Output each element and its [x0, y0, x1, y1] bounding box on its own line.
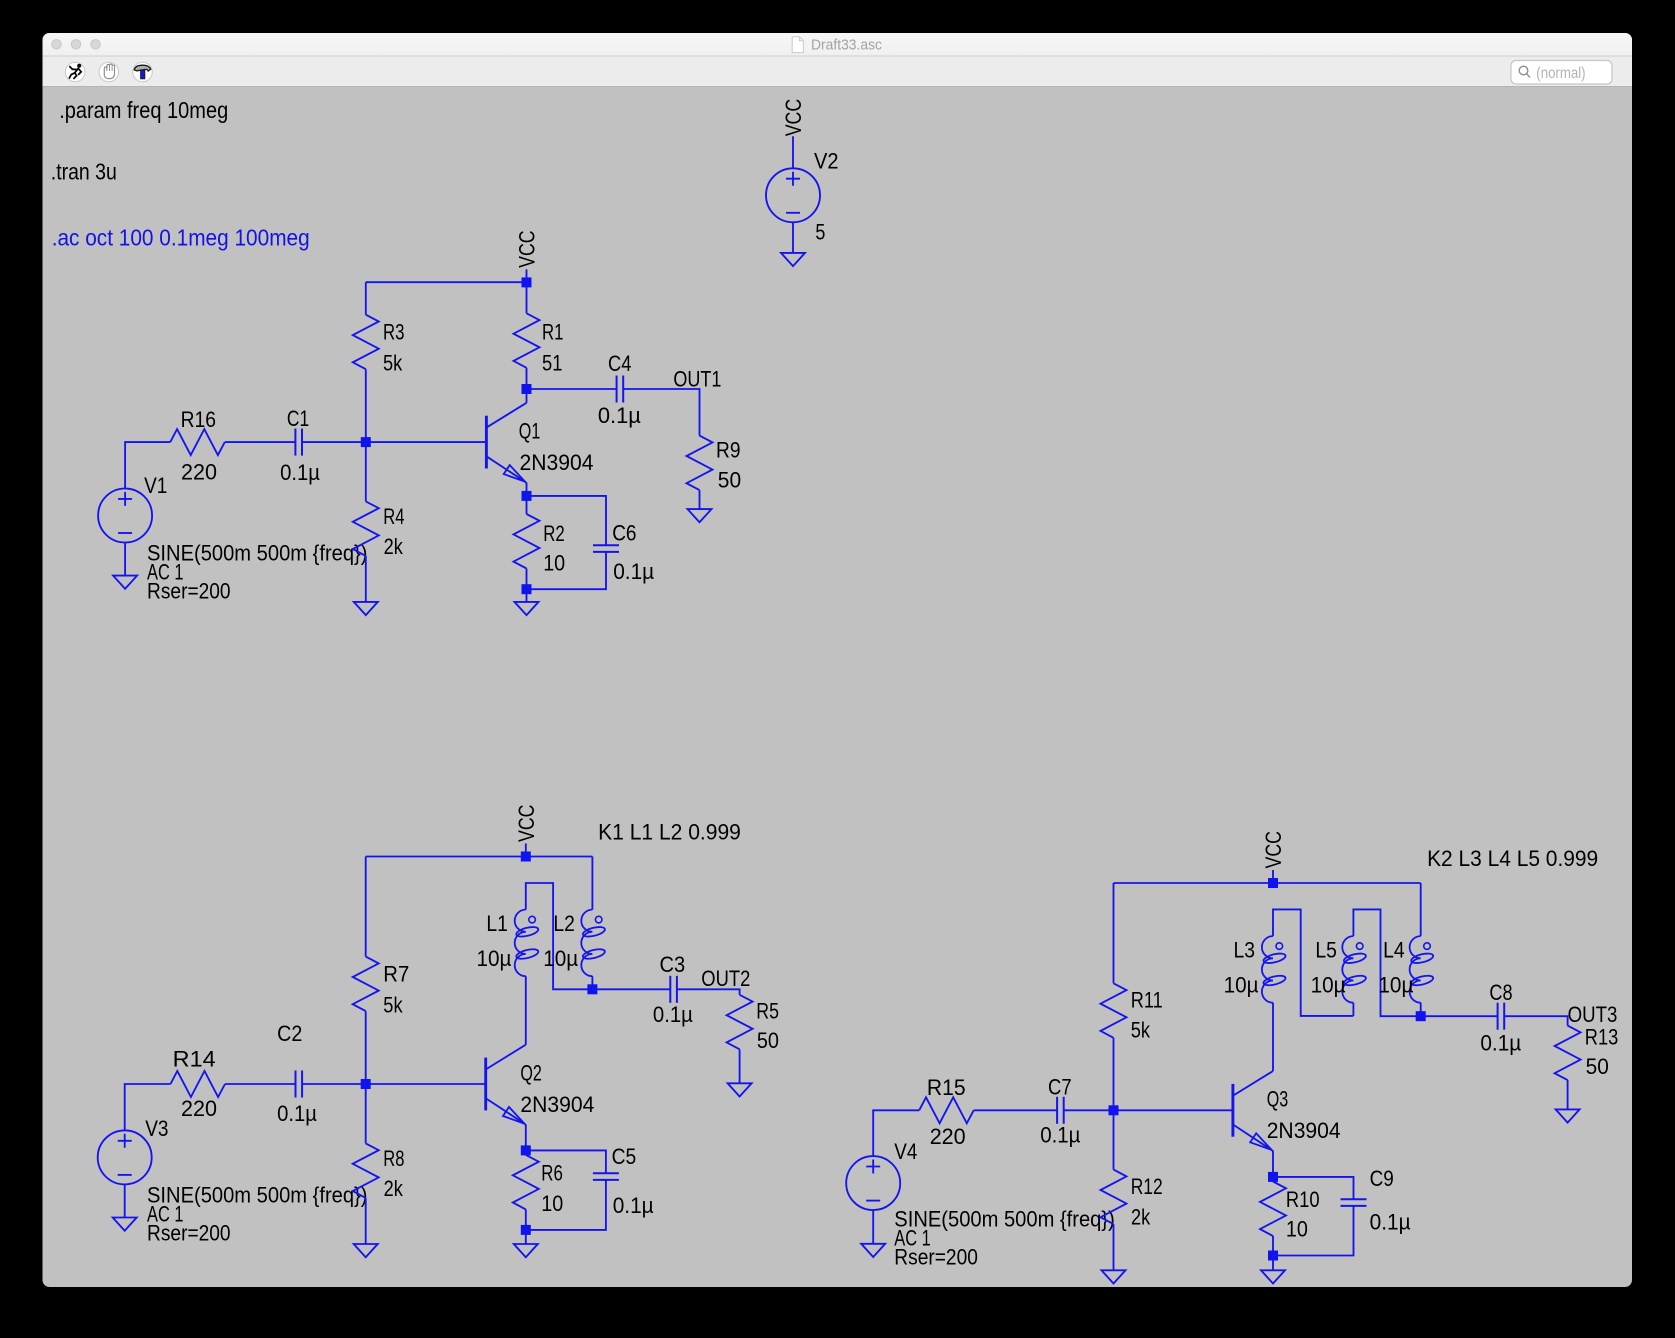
- svg-text:.param freq 10meg: .param freq 10meg: [59, 97, 228, 123]
- svg-text:R10: R10: [1286, 1187, 1320, 1212]
- transistor Q3 (2N3904) NPN: [1233, 1071, 1273, 1150]
- svg-text:L3: L3: [1234, 938, 1256, 963]
- svg-text:10: 10: [1286, 1217, 1308, 1242]
- wire collector node to C4: [527, 388, 617, 390]
- svg-text:2N3904: 2N3904: [520, 450, 594, 475]
- svg-text:5k: 5k: [1131, 1018, 1151, 1043]
- svg-text:VCC: VCC: [515, 230, 540, 268]
- wire C4 to OUT1 corner: [623, 389, 699, 436]
- resistor R14 (220): [171, 1071, 226, 1097]
- wire R6 bottom to ground: [525, 1230, 527, 1244]
- wire L1 top inner path: [526, 883, 593, 989]
- svg-text:Q3: Q3: [1267, 1087, 1289, 1112]
- resistor R9 (50): [687, 436, 713, 510]
- wire L1 bottom to Q2 collector: [525, 976, 527, 1044]
- wire L3 top inner path to L5 bottom: [1273, 909, 1353, 1016]
- svg-text:0.1µ: 0.1µ: [613, 1193, 654, 1218]
- svg-text:Draft33.asc: Draft33.asc: [811, 38, 882, 54]
- inductor L4 (10µ): [1410, 936, 1435, 1003]
- svg-text:Rser=200: Rser=200: [147, 1221, 231, 1246]
- node junction (emitter node Q3): [1268, 1172, 1278, 1182]
- svg-text:.tran 3u: .tran 3u: [51, 159, 117, 185]
- capacitor C9 (0.1µ): [1341, 1199, 1367, 1206]
- svg-text:0.1µ: 0.1µ: [1480, 1031, 1521, 1056]
- svg-text:C6: C6: [612, 520, 636, 545]
- svg-text:V1: V1: [144, 473, 167, 498]
- resistor R10 (10): [1260, 1177, 1286, 1256]
- svg-text:220: 220: [181, 459, 217, 484]
- svg-text:R2: R2: [543, 521, 565, 546]
- resistor R13 (50): [1555, 1026, 1581, 1110]
- svg-text:0.1µ: 0.1µ: [280, 460, 320, 485]
- svg-text:Q2: Q2: [520, 1060, 542, 1085]
- inductor L5 (10µ): [1342, 936, 1367, 1003]
- svg-text:L1: L1: [486, 911, 508, 936]
- node junction (VCC junction c1): [522, 277, 532, 287]
- inductor L2 (10µ): [581, 910, 606, 977]
- wire C3 to OUT2 corner: [677, 989, 740, 995]
- voltage source V2: [766, 168, 820, 222]
- svg-text:51: 51: [542, 350, 562, 375]
- svg-text:R11: R11: [1131, 988, 1163, 1013]
- ground (R9): [688, 509, 712, 522]
- svg-text:R15: R15: [927, 1075, 966, 1100]
- node junction (base node Q3): [1109, 1105, 1119, 1115]
- svg-text:0.1µ: 0.1µ: [1370, 1210, 1411, 1235]
- svg-text:(normal): (normal): [1536, 65, 1585, 82]
- svg-text:0.1µ: 0.1µ: [1040, 1123, 1081, 1148]
- wire V1 to R16 (input net 1): [125, 442, 170, 488]
- wire Q2 emitter vertical: [524, 1124, 525, 1151]
- svg-text:220: 220: [930, 1124, 966, 1149]
- node junction (VCC junction c3): [1268, 878, 1278, 888]
- wire C8 to OUT3 corner: [1504, 1016, 1567, 1025]
- node junction (R6 bottom node): [521, 1225, 531, 1235]
- svg-text:R13: R13: [1585, 1025, 1619, 1050]
- svg-text:R6: R6: [541, 1160, 563, 1185]
- svg-text:50: 50: [718, 467, 741, 492]
- svg-text:C1: C1: [287, 406, 309, 431]
- svg-text:10µ: 10µ: [1311, 973, 1346, 998]
- capacitor C6 (0.1µ): [593, 545, 619, 552]
- resistor R16 (220): [170, 429, 225, 455]
- resistor R4 (2k): [353, 442, 379, 602]
- inductor L3 (10µ): [1262, 936, 1287, 1003]
- ground (R12): [1102, 1270, 1126, 1283]
- wire VCC top rail circuit 2: [366, 856, 593, 858]
- capacitor C7 (0.1µ): [1057, 1097, 1064, 1124]
- svg-text:K2 L3 L4 L5 0.999: K2 L3 L4 L5 0.999: [1427, 846, 1598, 871]
- svg-text:VCC: VCC: [514, 804, 539, 842]
- wire L4 bottom stub: [1420, 1003, 1422, 1017]
- wire R15 to C7: [974, 1109, 1057, 1111]
- svg-text:Rser=200: Rser=200: [894, 1244, 978, 1269]
- voltage source V4: [846, 1156, 900, 1210]
- wire emitter node to C9: [1273, 1177, 1354, 1199]
- capacitor C5 (0.1µ): [593, 1173, 619, 1180]
- ground (V2): [781, 253, 805, 266]
- svg-text:VCC: VCC: [1261, 831, 1286, 869]
- svg-text:0.1µ: 0.1µ: [613, 559, 654, 584]
- svg-text:2k: 2k: [384, 1176, 404, 1201]
- svg-text:R8: R8: [383, 1146, 404, 1171]
- node junction (emitter node Q1): [522, 491, 532, 501]
- resistor R12 (2k): [1101, 1110, 1127, 1270]
- wire C7 to Q3 base: [1064, 1109, 1233, 1111]
- svg-text:OUT1: OUT1: [673, 366, 721, 391]
- node junction (output node OUT3): [1416, 1011, 1426, 1021]
- resistor R2 (10): [514, 496, 540, 589]
- svg-text:L2: L2: [553, 911, 575, 936]
- resistor R6 (10): [513, 1150, 539, 1230]
- node junction (R2 bottom node): [522, 584, 532, 594]
- wire R10 bottom to ground: [1272, 1256, 1274, 1271]
- capacitor C8 (0.1µ): [1498, 1003, 1505, 1030]
- svg-text:C3: C3: [660, 952, 686, 977]
- svg-text:V4: V4: [894, 1139, 917, 1164]
- wire V1 bottom lead: [124, 543, 126, 576]
- resistor R7 (5k): [353, 857, 379, 1085]
- resistor R5 (50): [727, 995, 753, 1084]
- svg-text:L5: L5: [1315, 938, 1337, 963]
- power flag VCC (circuit 1 rail): [526, 269, 528, 282]
- wire L5 top inner path to output node: [1353, 909, 1420, 1016]
- wire output node to C3: [592, 988, 670, 990]
- svg-text:2k: 2k: [384, 534, 404, 559]
- svg-text:OUT2: OUT2: [701, 966, 750, 991]
- svg-text:2N3904: 2N3904: [520, 1092, 594, 1117]
- wire R14 to C2: [225, 1083, 296, 1085]
- wire L2 bottom stub: [591, 976, 593, 989]
- svg-text:C8: C8: [1489, 980, 1512, 1005]
- wire V3 to R14: [125, 1084, 171, 1130]
- resistor R8 (2k): [353, 1084, 379, 1244]
- svg-text:L4: L4: [1383, 938, 1405, 963]
- svg-text:2k: 2k: [1131, 1204, 1151, 1229]
- svg-text:C5: C5: [612, 1144, 637, 1169]
- svg-text:V2: V2: [814, 148, 839, 173]
- wire V4 to R15: [873, 1110, 919, 1157]
- ground (R5): [728, 1083, 752, 1096]
- ground (R4): [354, 602, 378, 615]
- ground (R6/C5): [514, 1244, 538, 1257]
- wire C5 bottom to R6 bottom: [526, 1180, 606, 1230]
- svg-text:10: 10: [541, 1191, 563, 1216]
- svg-text:220: 220: [181, 1096, 217, 1121]
- svg-text:0.1µ: 0.1µ: [277, 1101, 317, 1126]
- svg-text:K1 L1 L2 0.999: K1 L1 L2 0.999: [598, 819, 741, 844]
- svg-text:R1: R1: [542, 320, 564, 345]
- power flag VCC (circuit 3 rail): [1272, 870, 1274, 883]
- capacitor C1 (0.1µ): [295, 429, 302, 456]
- inductor L1 (10µ): [515, 910, 540, 977]
- wire R16 to C1: [225, 441, 296, 443]
- capacitor C2 (0.1µ): [296, 1071, 303, 1098]
- ground (V1): [113, 576, 137, 589]
- svg-text:Q1: Q1: [519, 418, 541, 443]
- voltage source V3: [98, 1130, 152, 1184]
- wire V2 bottom lead: [792, 222, 794, 253]
- svg-text:5k: 5k: [383, 992, 403, 1017]
- resistor R3 (5k): [353, 282, 379, 442]
- resistor R11 (5k): [1101, 883, 1127, 1110]
- svg-text:R12: R12: [1131, 1174, 1163, 1199]
- node junction (R10 bottom node): [1268, 1251, 1278, 1261]
- svg-text:10µ: 10µ: [1378, 973, 1413, 998]
- transistor Q1 (2N3904) NPN: [486, 403, 526, 482]
- svg-text:10µ: 10µ: [543, 946, 578, 971]
- svg-text:R5: R5: [756, 999, 779, 1024]
- wire emitter node to C6 top: [527, 496, 607, 545]
- wire V2 top lead: [792, 136, 794, 168]
- wire L3 bottom to Q3 collector: [1272, 1003, 1274, 1071]
- svg-text:10: 10: [543, 550, 565, 575]
- svg-text:C2: C2: [277, 1021, 302, 1046]
- wire C9 bottom to R10 bottom: [1273, 1206, 1354, 1256]
- node junction (base node Q1): [361, 437, 371, 447]
- node junction (emitter node Q2): [521, 1145, 531, 1155]
- wire L4 top lead: [1420, 883, 1422, 936]
- ground (R2/C6): [515, 602, 539, 615]
- wire VCC top rail circuit 3: [1114, 882, 1421, 884]
- svg-text:0.1µ: 0.1µ: [598, 403, 641, 428]
- svg-text:C4: C4: [608, 351, 631, 376]
- capacitor C4 (0.1µ): [617, 376, 624, 403]
- wire L5 bottom stub: [1352, 1003, 1354, 1016]
- wire C2 to Q2 base: [302, 1083, 486, 1085]
- svg-text:R3: R3: [383, 320, 405, 345]
- svg-text:R14: R14: [173, 1046, 216, 1071]
- wire L2 top lead: [591, 857, 593, 910]
- voltage source V1: [98, 489, 152, 543]
- node junction (VCC junction c2): [521, 852, 531, 862]
- svg-text:10µ: 10µ: [477, 946, 512, 971]
- svg-text:VCC: VCC: [781, 99, 806, 137]
- resistor R1 (51): [514, 282, 540, 389]
- wire Q1 emitter vertical: [525, 482, 526, 496]
- node junction (output node OUT2): [587, 984, 597, 994]
- wire V4 bottom lead: [872, 1210, 874, 1244]
- svg-text:V3: V3: [145, 1116, 168, 1141]
- svg-text:C7: C7: [1048, 1074, 1072, 1099]
- resistor R15 (220): [919, 1097, 974, 1123]
- svg-text:OUT3: OUT3: [1568, 1002, 1618, 1027]
- ground (V3): [113, 1218, 137, 1231]
- node junction (base node Q2): [361, 1079, 371, 1089]
- ground (R13): [1556, 1109, 1580, 1122]
- svg-text:5k: 5k: [383, 350, 403, 375]
- svg-text:R16: R16: [181, 407, 216, 432]
- power flag VCC (circuit 2 rail): [525, 844, 527, 857]
- ground (R10/C9): [1261, 1270, 1285, 1283]
- svg-text:50: 50: [757, 1028, 779, 1053]
- node junction (collector node OUT1 side): [522, 384, 532, 394]
- svg-text:5: 5: [815, 219, 825, 244]
- wire R2 bottom to ground: [526, 589, 528, 602]
- wire emitter node to C5: [526, 1150, 606, 1173]
- svg-text:R9: R9: [716, 438, 741, 463]
- transistor Q2 (2N3904) NPN: [486, 1045, 526, 1124]
- capacitor C3 (0.1µ): [670, 976, 677, 1003]
- wire V3 bottom lead: [124, 1184, 126, 1217]
- svg-text:2N3904: 2N3904: [1267, 1118, 1341, 1143]
- svg-text:10µ: 10µ: [1224, 973, 1259, 998]
- wire C6 bottom to R2 bottom: [527, 552, 607, 589]
- wire Q3 emitter vertical: [1272, 1150, 1273, 1177]
- wire output node to C8: [1421, 1015, 1498, 1017]
- svg-text:50: 50: [1586, 1054, 1609, 1079]
- svg-text:Rser=200: Rser=200: [147, 579, 231, 604]
- wire VCC top rail circuit 1: [366, 281, 527, 283]
- svg-text:R7: R7: [383, 961, 409, 986]
- svg-text:0.1µ: 0.1µ: [653, 1002, 693, 1027]
- svg-text:R4: R4: [383, 504, 404, 529]
- ground (V4): [861, 1244, 885, 1257]
- svg-text:.ac oct 100 0.1meg 100meg: .ac oct 100 0.1meg 100meg: [52, 225, 310, 251]
- wire Q1 collector vertical: [526, 389, 528, 403]
- wire C1 to Q1 base through node: [302, 441, 486, 443]
- ground (R8): [354, 1244, 378, 1257]
- svg-text:C9: C9: [1370, 1166, 1394, 1191]
